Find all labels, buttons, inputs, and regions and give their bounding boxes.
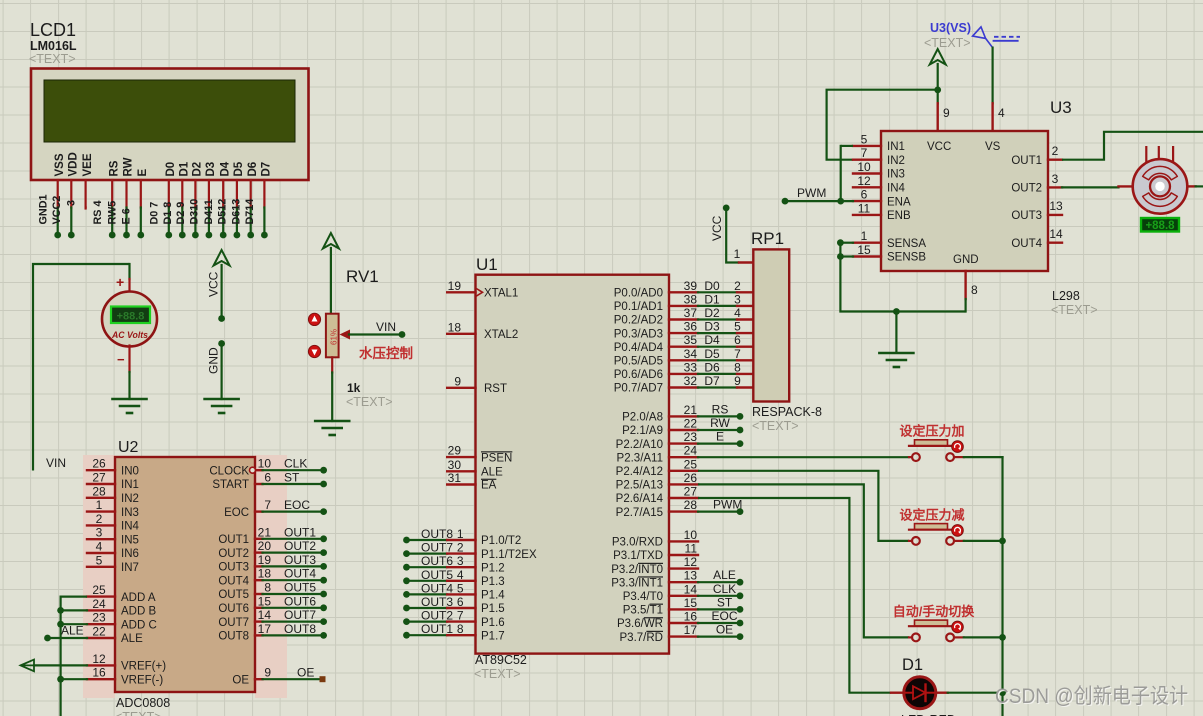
D1 value label clipped (901, 713, 956, 716)
svg-text:P0.1/AD1: P0.1/AD1 (614, 301, 663, 313)
svg-text:U2: U2 (118, 439, 139, 456)
wire VREF(+) with left terminal arrow (20, 660, 87, 672)
LCD pin 1 VSS (54, 153, 66, 238)
svg-text:15: 15 (857, 243, 871, 257)
svg-text:D714: D714 (244, 199, 256, 225)
svg-text:32: 32 (684, 374, 698, 388)
svg-text:IN3: IN3 (121, 507, 139, 519)
svg-text:OUT8: OUT8 (218, 631, 249, 643)
svg-text:5: 5 (96, 553, 103, 567)
svg-text:IN1: IN1 (121, 479, 139, 491)
U1 pin 13 P3.3/INT1 net ALE (611, 568, 743, 589)
svg-text:CLK: CLK (713, 582, 736, 596)
svg-text:ADD C: ADD C (121, 619, 157, 631)
svg-text:D4: D4 (704, 333, 720, 347)
U2 pin 3 IN5 (87, 526, 139, 547)
LCD pin net label E 6 (121, 208, 133, 224)
svg-text:OUT6: OUT6 (421, 554, 453, 568)
svg-text:D2: D2 (192, 162, 204, 177)
svg-text:33: 33 (684, 360, 698, 374)
svg-text:自动/手动切换: 自动/手动切换 (893, 604, 976, 619)
U2 pin 23 ADD C (87, 611, 157, 632)
U3 reference label (1050, 98, 1072, 117)
svg-text:VS: VS (985, 141, 1001, 153)
svg-text:OUT1: OUT1 (1011, 155, 1042, 167)
U1 value label (474, 653, 527, 681)
svg-text:ADC0808: ADC0808 (116, 696, 170, 710)
U3 pin 12 IN4 (853, 174, 906, 195)
svg-text:SENSB: SENSB (887, 252, 926, 264)
svg-text:D6: D6 (704, 360, 720, 374)
U2 pin 16 VREF(-) (87, 666, 163, 687)
svg-text:P3.0/RXD: P3.0/RXD (612, 537, 663, 549)
svg-text:P3.1/TXD: P3.1/TXD (613, 550, 663, 562)
svg-text:P1.7: P1.7 (481, 630, 505, 642)
svg-text:P1.1/T2EX: P1.1/T2EX (481, 549, 537, 561)
resistor pack RP1 body (753, 249, 789, 401)
motor brush terminals (1146, 146, 1173, 163)
svg-text:10: 10 (258, 457, 272, 471)
wire SENSA (837, 239, 853, 246)
U1 pin 16 P3.6/WR net EOC (617, 609, 743, 630)
U2 pin 2 IN4 (87, 512, 140, 533)
push button SW3 auto/manual switch (893, 604, 976, 641)
svg-text:D1: D1 (179, 161, 191, 176)
svg-text:13: 13 (684, 569, 698, 583)
svg-text:30: 30 (448, 458, 462, 472)
svg-text:START: START (212, 479, 249, 491)
svg-text:IN2: IN2 (121, 493, 139, 505)
svg-text:RS 4: RS 4 (92, 200, 104, 224)
power VCC terminal above U3 (930, 49, 946, 90)
svg-text:EOC: EOC (224, 507, 249, 519)
ground below U3 (879, 353, 913, 367)
svg-text:P0.5/AD5: P0.5/AD5 (614, 356, 663, 368)
svg-text:21: 21 (684, 403, 698, 417)
wire VCC to U3 IN2 (827, 87, 942, 160)
svg-text:1: 1 (734, 247, 741, 261)
svg-text:RW: RW (710, 416, 730, 430)
LCD pin 6 E (137, 169, 149, 239)
push button SW2 set pressure down (899, 507, 964, 544)
svg-text:5: 5 (861, 132, 868, 146)
svg-text:20: 20 (258, 539, 272, 553)
LCD pin 7 D0 (165, 162, 177, 239)
svg-text:29: 29 (448, 444, 462, 458)
U2 pin 14 OUT7 net OUT7 (218, 608, 327, 629)
svg-text:P1.0/T2: P1.0/T2 (481, 535, 521, 547)
svg-text:+88.8: +88.8 (117, 311, 145, 323)
U1 pin 27 P2.6/A14 wire to LED D1 (616, 485, 891, 693)
U3 pin 3 OUT2 wire to motor (1011, 172, 1118, 195)
U1 pin 2 P1.1/T2EX net OUT7 (403, 541, 537, 561)
U3 pin 13 OUT3 (1011, 199, 1063, 222)
svg-text:ALE: ALE (713, 568, 736, 582)
svg-text:<TEXT>: <TEXT> (115, 710, 162, 716)
svg-text:34: 34 (684, 347, 698, 361)
svg-text:17: 17 (258, 622, 272, 636)
U3(VS) power net label (924, 21, 971, 50)
U2 pin 12 VREF(+) (87, 652, 166, 673)
svg-text:26: 26 (684, 471, 698, 485)
wire ground stem (893, 308, 900, 353)
wire ADD C (57, 621, 87, 628)
LCD pin net label D2 9 (175, 202, 187, 225)
svg-text:1: 1 (96, 498, 103, 512)
svg-text:5: 5 (734, 320, 741, 334)
wire from voltmeter to U2 IN0 (33, 264, 130, 471)
U1 pin 33 P0.6/AD6 net D6 to RP1 pin 8 (614, 360, 754, 381)
svg-text:7: 7 (457, 609, 464, 623)
svg-text:4: 4 (734, 306, 741, 320)
svg-text:P0.2/AD2: P0.2/AD2 (614, 315, 663, 327)
U1 pin 29 PSEN (447, 444, 512, 465)
svg-text:D512: D512 (217, 199, 229, 225)
svg-text:−: − (117, 352, 125, 367)
svg-text:13: 13 (1049, 199, 1063, 213)
svg-text:RS: RS (108, 160, 120, 176)
svg-text:U3(VS): U3(VS) (930, 21, 971, 35)
svg-text:61%: 61% (330, 329, 339, 345)
svg-text:4: 4 (457, 568, 464, 582)
svg-text:OUT6: OUT6 (218, 603, 249, 615)
svg-text:OUT4: OUT4 (284, 567, 316, 581)
U2 pin 21 OUT1 net OUT1 (218, 525, 327, 546)
U3 pin 11 ENB (853, 201, 911, 222)
U2 pin 7 EOC net EOC (224, 498, 327, 519)
svg-text:P2.5/A13: P2.5/A13 (616, 480, 663, 492)
push button SW1 set pressure up (899, 424, 964, 461)
LCD pin 13 D6 (247, 162, 259, 239)
wire SW1 to right vertical rail (964, 457, 1003, 716)
U1 pin 17 P3.7/RD net OE (620, 623, 744, 644)
LCD pin 12 D5 (233, 161, 245, 238)
svg-text:P2.3/A11: P2.3/A11 (617, 452, 663, 464)
svg-text:9: 9 (454, 374, 461, 388)
U1 pin 7 P1.6 net OUT2 (403, 609, 505, 629)
LCD pin net label 3 (65, 200, 77, 206)
VCC net label (207, 271, 221, 297)
svg-text:2: 2 (457, 541, 464, 555)
svg-text:IN6: IN6 (121, 548, 139, 560)
wire SW2 to rail (964, 538, 1006, 545)
wire SENSB to ground rail (837, 243, 966, 312)
svg-text:6: 6 (457, 595, 464, 609)
svg-text:28: 28 (684, 498, 698, 512)
U1 pin 25 P2.4/A12 wire to button SW2 (616, 457, 909, 541)
RV1 adjust down icon (308, 345, 320, 357)
svg-text:OUT4: OUT4 (218, 575, 249, 587)
svg-text:3: 3 (457, 554, 464, 568)
svg-text:OUT3: OUT3 (218, 562, 249, 574)
svg-text:D7: D7 (261, 162, 273, 177)
svg-text:2: 2 (734, 279, 741, 293)
U2 left pin highlight band (83, 455, 115, 698)
svg-text:<TEXT>: <TEXT> (29, 52, 76, 66)
U2 pin 5 IN7 (87, 553, 139, 574)
svg-text:P3.7/RD: P3.7/RD (620, 632, 663, 644)
svg-text:9: 9 (943, 106, 950, 120)
U1 pin 6 P1.5 net OUT3 (403, 595, 505, 615)
svg-text:PWM: PWM (797, 186, 826, 200)
microcontroller U1 AT89C52 body (476, 275, 670, 654)
svg-text:8: 8 (457, 622, 464, 636)
U1 pin 10 P3.0/RXD (612, 528, 698, 549)
wire PWM to ENA (782, 186, 853, 205)
svg-text:IN7: IN7 (121, 562, 139, 574)
svg-text:P2.2/A10: P2.2/A10 (616, 439, 663, 451)
RV1 bottom pin (331, 357, 333, 421)
svg-text:GND: GND (207, 347, 221, 374)
voltmeter minus sign (117, 352, 125, 367)
LCD screen (44, 80, 295, 142)
wire ADD B (57, 607, 87, 614)
VCC net label at RP1 (710, 215, 724, 241)
svg-text:D2 9: D2 9 (175, 202, 187, 225)
LCD pin net label D613 (231, 199, 243, 225)
U1 pin 12 P3.2/INT0 (611, 555, 698, 576)
svg-text:CLK: CLK (284, 457, 307, 471)
svg-text:3: 3 (1052, 172, 1059, 186)
LCD pin net label D310 (189, 199, 201, 225)
svg-text:27: 27 (92, 471, 106, 485)
ADC U2 ADC0808 body (115, 457, 255, 692)
LCD pin net label RS 4 (92, 200, 104, 224)
svg-text:GND: GND (953, 254, 979, 266)
svg-text:P2.7/A15: P2.7/A15 (616, 507, 663, 519)
svg-text:ALE: ALE (61, 624, 84, 638)
node VIN label at RV1 (376, 320, 396, 334)
svg-text:CLOCK: CLOCK (209, 465, 249, 477)
svg-text:P0.3/AD3: P0.3/AD3 (614, 328, 663, 340)
power flag VS terminal symbol (973, 27, 1020, 48)
svg-text:+: + (116, 274, 124, 290)
motor U4 body (1133, 159, 1188, 214)
svg-text:6: 6 (734, 333, 741, 347)
svg-text:35: 35 (684, 333, 698, 347)
RV1 adjust up icon (308, 313, 320, 325)
svg-text:E: E (137, 169, 149, 177)
U2 pin 17 OUT8 net OUT8 (218, 622, 327, 643)
U1 reference label (476, 255, 498, 274)
svg-text:P3.3/INT1: P3.3/INT1 (611, 577, 663, 589)
svg-text:8: 8 (264, 581, 271, 595)
U2 value label (115, 696, 170, 716)
svg-text:P3.4/T0: P3.4/T0 (623, 591, 663, 603)
svg-text:D1: D1 (902, 656, 923, 674)
svg-text:19: 19 (448, 279, 462, 293)
U3 pin 15 SENSB (853, 243, 926, 264)
voltmeter bottom pin (128, 346, 130, 400)
svg-text:12: 12 (857, 174, 871, 188)
svg-text:18: 18 (448, 320, 462, 334)
svg-text:37: 37 (684, 306, 698, 320)
svg-text:VDD: VDD (68, 152, 80, 176)
svg-text:IN2: IN2 (887, 155, 905, 167)
power VCC terminal above RV1 (323, 233, 339, 314)
svg-text:21: 21 (258, 525, 272, 539)
svg-text:OUT4: OUT4 (421, 581, 453, 595)
svg-text:OUT8: OUT8 (421, 527, 453, 541)
svg-text:PWM: PWM (713, 498, 742, 512)
svg-text:<TEXT>: <TEXT> (474, 667, 521, 681)
svg-text:E: E (716, 430, 724, 444)
svg-text:15: 15 (684, 596, 698, 610)
svg-text:D5: D5 (233, 161, 245, 176)
svg-text:12: 12 (684, 555, 698, 569)
power VCC terminal stub (214, 250, 230, 322)
U1 pin 36 P0.3/AD3 net D3 to RP1 pin 5 (614, 320, 754, 341)
LED D1 body (904, 677, 936, 709)
svg-text:24: 24 (92, 597, 106, 611)
svg-text:EOC: EOC (711, 609, 737, 623)
U2 pin 28 IN2 (87, 484, 139, 505)
svg-text:<TEXT>: <TEXT> (346, 395, 393, 409)
svg-text:P0.7/AD7: P0.7/AD7 (614, 383, 663, 395)
U1 pin 5 P1.4 net OUT4 (403, 581, 505, 601)
U1 pin 18 XTAL2 (447, 320, 518, 341)
svg-text:10: 10 (857, 160, 871, 174)
svg-text:E 6: E 6 (121, 208, 133, 224)
motor left pin (1119, 185, 1133, 187)
LED right pin wire to rail (936, 689, 1006, 696)
svg-text:9: 9 (734, 374, 741, 388)
svg-text:OUT1: OUT1 (284, 525, 316, 539)
svg-text:25: 25 (684, 457, 698, 471)
svg-text:15: 15 (258, 594, 272, 608)
svg-text:2: 2 (1052, 144, 1059, 158)
svg-text:18: 18 (258, 567, 272, 581)
LCD1 reference label (29, 20, 77, 66)
node VIN at U2 input (46, 456, 66, 470)
motor driver U3 L298 body (881, 131, 1048, 271)
U1 pin 3 P1.2 net OUT6 (403, 554, 505, 574)
U1 pin 31 EA (447, 471, 496, 492)
voltmeter AC Volts body (102, 292, 157, 347)
U2 pin 20 OUT2 net OUT2 (218, 539, 327, 560)
svg-text:P1.3: P1.3 (481, 576, 505, 588)
svg-text:OE: OE (232, 674, 249, 686)
U2 pin 25 ADD A (87, 583, 156, 604)
svg-text:10: 10 (684, 528, 698, 542)
U2 pin 9 OE net OE (232, 666, 325, 687)
svg-text:OUT1: OUT1 (421, 622, 453, 636)
svg-text:OE: OE (297, 666, 314, 680)
svg-text:22: 22 (684, 417, 698, 431)
svg-text:OUT5: OUT5 (421, 568, 453, 582)
LCD pin net label VCC2 (51, 196, 63, 225)
svg-text:IN5: IN5 (121, 534, 139, 546)
svg-text:设定压力减: 设定压力减 (899, 507, 964, 522)
svg-text:OUT5: OUT5 (218, 589, 249, 601)
svg-text:OUT3: OUT3 (284, 553, 316, 567)
svg-text:ST: ST (717, 595, 733, 609)
svg-text:23: 23 (92, 611, 106, 625)
svg-text:26: 26 (92, 457, 106, 471)
svg-text:OUT4: OUT4 (1011, 238, 1042, 250)
svg-text:14: 14 (684, 582, 698, 596)
svg-text:P0.0/AD0: P0.0/AD0 (614, 288, 663, 300)
LCD pin 10 D3 (205, 162, 217, 239)
GND stub wire (218, 340, 225, 399)
U3 pin 1 SENSA (853, 229, 926, 250)
LCD pin net label D411 (203, 199, 215, 224)
svg-text:<TEXT>: <TEXT> (752, 419, 799, 433)
svg-text:XTAL2: XTAL2 (484, 329, 518, 341)
U2 pin 27 IN1 (87, 471, 139, 492)
U3 pin 6 ENA (853, 188, 911, 209)
svg-text:6: 6 (264, 471, 271, 485)
U2 pin 1 IN3 (87, 498, 139, 519)
svg-text:VCC: VCC (207, 271, 221, 297)
svg-text:1k: 1k (347, 381, 361, 395)
svg-text:ADD A: ADD A (121, 592, 156, 604)
LCD pin net label D1 8 (162, 202, 174, 225)
svg-text:27: 27 (684, 485, 698, 499)
potentiometer RV1 body (326, 314, 339, 358)
svg-text:ST: ST (284, 471, 300, 485)
U1 pin 37 P0.2/AD2 net D2 to RP1 pin 4 (614, 306, 754, 327)
LCD LM016L body (31, 69, 309, 181)
svg-text:RST: RST (484, 383, 507, 395)
svg-text:7: 7 (861, 146, 868, 160)
svg-text:22: 22 (92, 625, 106, 639)
RV1 reference label (346, 267, 379, 286)
LCD pin 9 D2 (192, 162, 204, 239)
svg-text:水压控制: 水压控制 (359, 345, 413, 361)
U2 pin 26 IN0 (87, 457, 139, 478)
svg-text:设定压力加: 设定压力加 (899, 424, 964, 439)
svg-text:4: 4 (96, 540, 103, 554)
svg-text:OUT5: OUT5 (284, 581, 316, 595)
svg-text:P2.4/A12: P2.4/A12 (616, 466, 663, 478)
ground below voltmeter (113, 399, 147, 413)
U3 pin 2 OUT1 wire off right (1011, 132, 1203, 167)
svg-text:P1.2: P1.2 (481, 562, 505, 574)
svg-text:P0.6/AD6: P0.6/AD6 (614, 369, 663, 381)
svg-text:EOC: EOC (284, 498, 310, 512)
svg-text:PSEN: PSEN (481, 452, 512, 464)
LCD pin net label RW5 (106, 201, 118, 225)
LCD pin 5 RW (123, 157, 135, 238)
svg-text:ADD B: ADD B (121, 606, 156, 618)
svg-text:VIN: VIN (376, 320, 396, 334)
svg-text:IN1: IN1 (887, 141, 905, 153)
U3 pin 4 VS (993, 48, 1005, 131)
svg-text:L298: L298 (1052, 289, 1080, 303)
svg-text:U1: U1 (476, 255, 498, 274)
svg-text:VEE: VEE (82, 153, 94, 176)
svg-text:D2: D2 (704, 306, 720, 320)
svg-text:14: 14 (258, 608, 272, 622)
svg-text:11: 11 (858, 201, 871, 215)
svg-text:31: 31 (448, 471, 462, 485)
watermark CSDN (995, 685, 1189, 709)
svg-text:<TEXT>: <TEXT> (1051, 303, 1098, 317)
LCD pin 14 D7 (261, 162, 273, 239)
svg-text:P2.1/A9: P2.1/A9 (622, 425, 663, 437)
svg-text:12: 12 (92, 652, 106, 666)
svg-text:8: 8 (971, 283, 978, 297)
svg-text:6: 6 (861, 188, 868, 202)
U1 pin 39 P0.0/AD0 net D0 to RP1 pin 2 (614, 279, 754, 300)
D1 reference label (902, 656, 923, 674)
svg-text:4: 4 (998, 106, 1005, 120)
LCD pin 2 VDD (68, 152, 80, 238)
U1 pin 15 P3.5/T1 net ST (623, 595, 744, 616)
svg-text:CSDN @创新电子设计: CSDN @创新电子设计 (995, 685, 1188, 708)
svg-text:7: 7 (734, 347, 741, 361)
